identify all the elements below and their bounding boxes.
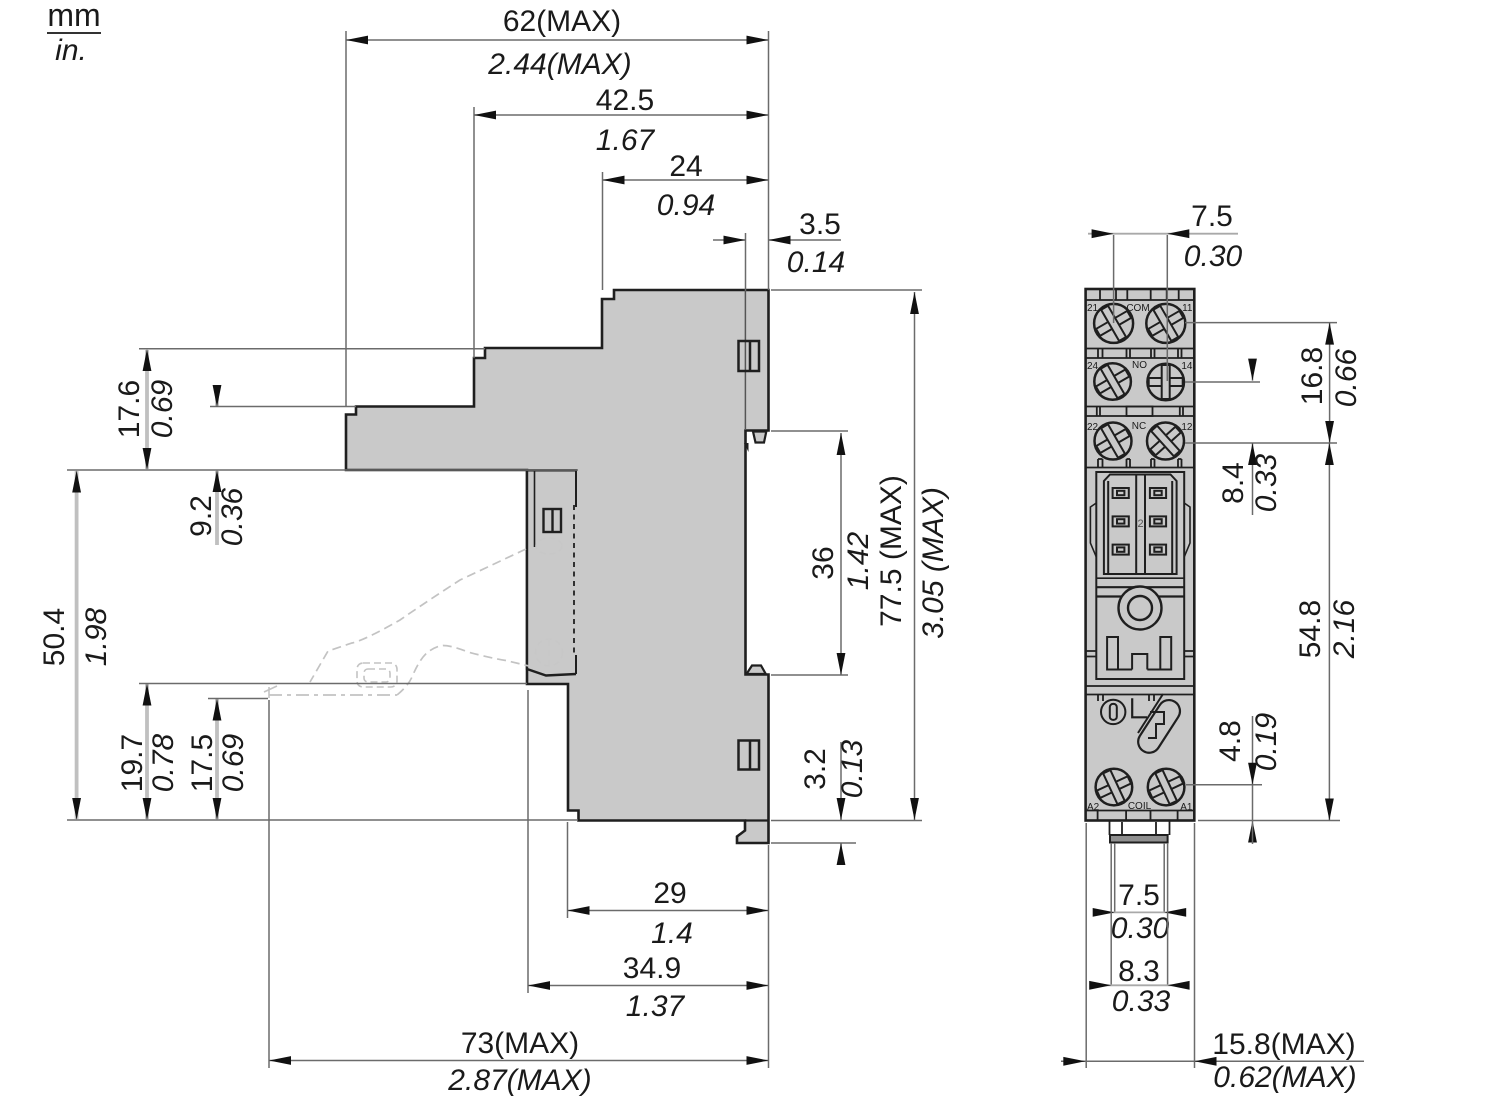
phantom clip pivot ghost circle: [536, 639, 563, 666]
dimension 24: [603, 150, 769, 290]
svg-text:NC: NC: [1132, 421, 1146, 432]
svg-text:17.6: 17.6: [113, 380, 146, 438]
side view: right clip window upper: [739, 341, 760, 371]
front view: L-shaped mark: [1132, 698, 1147, 717]
dimension 7.5 top (front): [1088, 200, 1243, 381]
dimension 16.8 (front): [1185, 323, 1363, 443]
svg-text:1.98: 1.98: [80, 607, 113, 666]
svg-text:mm: mm: [47, 0, 100, 33]
svg-text:0.69: 0.69: [217, 733, 250, 792]
svg-text:34.9: 34.9: [623, 952, 681, 985]
front view: screw 22: [1090, 418, 1136, 464]
svg-text:42.5: 42.5: [596, 84, 654, 117]
svg-text:15.8(MAX): 15.8(MAX): [1212, 1028, 1355, 1061]
phantom retaining clip upper dashed line: [310, 549, 526, 682]
side view: clip holder protrusion: [527, 470, 576, 676]
svg-text:11: 11: [1182, 303, 1193, 314]
svg-text:50.4: 50.4: [38, 608, 71, 666]
svg-text:0.78: 0.78: [147, 733, 180, 792]
phantom clip left end tick: [264, 686, 277, 698]
front view: divider strip 2: [1086, 407, 1195, 417]
front view: pin block dark band: [1110, 835, 1168, 843]
svg-text:in.: in.: [55, 34, 87, 67]
front view: angled keyhole: [1138, 700, 1180, 753]
front view: pin holes: [1113, 488, 1167, 555]
svg-text:0.13: 0.13: [836, 739, 869, 798]
front view: pin housing: [1104, 475, 1177, 575]
units label mm/in: [47, 0, 101, 67]
svg-text:7.5: 7.5: [1191, 200, 1233, 233]
svg-text:0.36: 0.36: [216, 487, 249, 546]
dimension 3.5: [713, 208, 845, 291]
svg-text:2: 2: [1137, 518, 1143, 530]
phantom clip handle ghost: [357, 663, 397, 687]
svg-text:29: 29: [653, 877, 686, 910]
svg-text:12: 12: [1181, 422, 1193, 433]
svg-text:24: 24: [669, 150, 702, 183]
svg-text:14: 14: [1181, 361, 1193, 372]
front view: coil indicator circle: [1101, 700, 1125, 724]
front view: coil labels A2 COIL A1: [1087, 801, 1193, 813]
svg-text:8.4: 8.4: [1217, 462, 1250, 504]
svg-text:9.2: 9.2: [185, 495, 218, 537]
svg-text:0.69: 0.69: [146, 379, 179, 438]
baseline extension y470: [67, 469, 578, 471]
svg-text:0.33: 0.33: [1112, 985, 1171, 1018]
svg-text:3.5: 3.5: [799, 208, 841, 241]
dimension 73(MAX): [269, 700, 769, 1097]
phantom clip pivot ghost upper: [536, 538, 562, 554]
svg-text:54.8: 54.8: [1294, 600, 1327, 658]
phantom retaining clip lower curve: [397, 646, 529, 696]
front view: screw 12: [1141, 417, 1189, 465]
dimension 9.2: [185, 385, 356, 546]
svg-text:36: 36: [807, 546, 840, 579]
dimension 42.5: [474, 84, 769, 358]
svg-text:0.19: 0.19: [1250, 712, 1283, 771]
dimension 8.3 (front): [1089, 843, 1189, 1018]
front view: divider strip 1: [1086, 349, 1195, 359]
dimension 50.4: [38, 471, 113, 821]
svg-text:NO: NO: [1132, 360, 1147, 371]
side view: clip holder hidden right edge (dashed): [573, 505, 575, 657]
svg-text:0.66: 0.66: [1330, 348, 1363, 407]
front view: side latch arms: [1090, 503, 1190, 557]
side view: channel inner wall upper line: [744, 291, 746, 430]
side view: channel inner wall thick top: [744, 443, 749, 452]
phantom retaining clip lower dash-dot baseline: [269, 694, 397, 696]
svg-text:0.30: 0.30: [1111, 912, 1170, 945]
front view: screw 21: [1089, 299, 1138, 348]
dimension 8.4 (front): [1185, 359, 1283, 515]
front view: bottom slots: [1107, 637, 1171, 670]
svg-text:77.5 (MAX): 77.5 (MAX): [875, 475, 908, 627]
front view: screw 11: [1141, 299, 1190, 348]
dimension 4.8 (front): [1186, 712, 1283, 844]
front view: divider strip 4: [1086, 686, 1195, 701]
svg-text:0.62(MAX): 0.62(MAX): [1213, 1061, 1356, 1094]
side view: foot boundary line: [745, 819, 769, 821]
svg-text:2.16: 2.16: [1328, 599, 1361, 659]
dimension 3.2: [771, 739, 869, 865]
side view: right clip window lower: [739, 741, 760, 770]
svg-text:4.8: 4.8: [1214, 720, 1247, 762]
svg-text:3.05 (MAX): 3.05 (MAX): [917, 487, 950, 639]
side view: DIN channel bottom hook: [747, 666, 766, 675]
dimension 62(MAX): [346, 5, 769, 407]
svg-text:0.33: 0.33: [1250, 453, 1283, 512]
dimension 29: [568, 822, 769, 1068]
side view: DIN channel top hook: [753, 432, 766, 443]
svg-text:16.8: 16.8: [1296, 347, 1329, 405]
svg-text:2.87(MAX): 2.87(MAX): [447, 1064, 591, 1097]
svg-text:0.94: 0.94: [657, 189, 715, 222]
front view: shelf lines: [1096, 577, 1184, 579]
baseline extension y820: [67, 819, 578, 821]
svg-text:1.67: 1.67: [596, 124, 656, 157]
front view: screw 14 upright cross: [1147, 364, 1184, 401]
svg-text:7.5: 7.5: [1118, 879, 1160, 912]
front view: screw 24: [1089, 358, 1135, 404]
dimension 15.8(MAX) (front): [1061, 823, 1364, 1094]
front view: keyhole inner notch: [1138, 694, 1163, 733]
dimension 7.5 bottom (front): [1093, 843, 1187, 945]
svg-text:0.14: 0.14: [787, 246, 845, 279]
svg-text:2.44(MAX): 2.44(MAX): [487, 48, 631, 81]
front view: divider strip 3: [1086, 459, 1195, 468]
dimension 36: [771, 431, 875, 675]
dimension 17.5: [186, 699, 268, 821]
svg-text:3.2: 3.2: [799, 748, 832, 790]
svg-text:1.4: 1.4: [651, 917, 693, 950]
side view: clip holder inner wall: [534, 471, 536, 547]
front view: row2 terminal labels 24 NO 14: [1087, 360, 1193, 372]
svg-text:62(MAX): 62(MAX): [503, 5, 621, 38]
dimension 19.7: [116, 684, 527, 821]
front view: row1 terminal labels 21 COM 11: [1087, 303, 1193, 314]
front view: coil screw A2: [1091, 765, 1136, 810]
front view: center circle: [1119, 587, 1162, 630]
front view: bottom strip: [1086, 811, 1195, 821]
front view: side nubs: [1086, 651, 1194, 657]
front view: middle well: [1096, 472, 1184, 679]
svg-text:17.5: 17.5: [186, 734, 219, 792]
dimension 17.6: [113, 349, 485, 470]
dimension 54.8 (front): [1198, 443, 1361, 821]
svg-text:1.42: 1.42: [842, 531, 875, 590]
dimension 34.9: [528, 690, 769, 1023]
dimension 77.5 (MAX): [771, 290, 950, 821]
front view: coil screw A1: [1144, 765, 1189, 810]
front view: socket body: [1086, 289, 1195, 821]
front view: top strip: [1086, 290, 1195, 300]
svg-text:0.30: 0.30: [1184, 240, 1243, 273]
side view: socket body outline: [346, 290, 769, 843]
svg-text:19.7: 19.7: [116, 734, 149, 792]
svg-text:1.37: 1.37: [626, 990, 686, 1023]
svg-text:8.3: 8.3: [1118, 955, 1160, 988]
side view: clip holder window: [544, 509, 562, 532]
front view: row3 terminal labels 22 NC 12: [1087, 421, 1193, 433]
front view: pin block below body: [1110, 821, 1170, 836]
svg-text:73(MAX): 73(MAX): [461, 1027, 579, 1060]
